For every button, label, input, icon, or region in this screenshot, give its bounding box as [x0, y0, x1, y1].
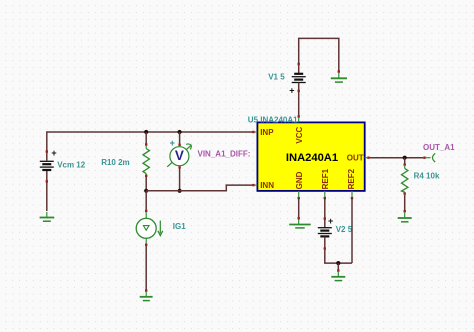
ground below GND pin [289, 217, 311, 228]
junction V2 ground [336, 261, 340, 265]
ground below Vcm [40, 212, 55, 221]
wire bottom rail to INN [146, 185, 252, 191]
wire OUT to terminal [370, 157, 424, 159]
svg-text:REF2: REF2 [347, 168, 356, 189]
pin GND [295, 171, 304, 199]
terminal OUT_A1 [423, 153, 435, 162]
svg-text:REF1: REF1 [321, 168, 330, 189]
wire Vcm bottom to ground [46, 170, 48, 211]
svg-text:V: V [175, 148, 184, 163]
svg-text:VCC: VCC [295, 126, 304, 143]
resistor R10 [143, 143, 149, 177]
junction at R10 top [144, 130, 148, 134]
pin REF1 [321, 168, 330, 199]
svg-text:Vcm 12: Vcm 12 [57, 160, 86, 169]
ground below V2 [331, 269, 345, 280]
ground below R4 [398, 210, 412, 222]
junction at R4 top [403, 156, 407, 160]
svg-text:+: + [170, 138, 175, 148]
wire REF2 down [351, 198, 353, 263]
wire voltmeter top stub [179, 132, 181, 144]
wire R4 bottom [404, 195, 406, 211]
wire V1 top to ground [299, 38, 339, 71]
wire GND pin to ground [298, 198, 300, 220]
svg-text:INA240A1: INA240A1 [286, 152, 338, 164]
wire voltmeter bottom stub [179, 168, 181, 191]
wire IG1 top [145, 191, 147, 211]
wire V1 to VCC pin [298, 92, 300, 116]
wire junction to ground [337, 263, 339, 270]
svg-text:IG1: IG1 [173, 222, 186, 231]
pin OUT [347, 154, 370, 163]
battery Vcm [40, 148, 57, 183]
svg-text:INN: INN [260, 181, 274, 190]
svg-text:R10 2m: R10 2m [101, 158, 129, 167]
voltmeter VIN_A1_DIFF [167, 138, 191, 169]
pin INN [252, 181, 274, 190]
pin REF2 [347, 168, 356, 199]
svg-text:OUT_A1: OUT_A1 [423, 143, 455, 152]
svg-text:INP: INP [260, 128, 274, 137]
wire top rail from Vcm to INP [47, 132, 253, 161]
svg-text:VIN_A1_DIFF:: VIN_A1_DIFF: [198, 150, 251, 159]
svg-text:+: + [328, 216, 333, 226]
junction at voltmeter bottom [178, 189, 182, 193]
resistor R4 [402, 163, 408, 194]
svg-text:OUT: OUT [347, 154, 364, 163]
svg-text:+: + [51, 148, 56, 158]
wire V2 bottom to junction [325, 250, 352, 263]
svg-text:V1 5: V1 5 [268, 72, 285, 81]
svg-text:+: + [289, 86, 294, 96]
ground right of V1 [331, 70, 347, 82]
wire R10 top stub [145, 132, 147, 144]
svg-text:GND: GND [295, 171, 304, 189]
ground below IG1 [140, 289, 153, 300]
wire REF1 to V2 [324, 198, 326, 220]
junction at R10 bottom [144, 189, 148, 193]
op-amp U5 INA240A1 [257, 122, 364, 190]
wire R10 bottom stub [145, 177, 147, 191]
svg-text:R4 10k: R4 10k [414, 172, 440, 181]
svg-text:V2 5: V2 5 [336, 225, 353, 234]
battery V2 [318, 216, 333, 250]
junction at voltmeter top [178, 130, 182, 134]
svg-text:U5 INA240A1: U5 INA240A1 [248, 115, 298, 124]
wire IG1 bottom [145, 246, 147, 290]
wire R4 top [404, 158, 406, 165]
battery V1 [289, 63, 306, 96]
current source IG1 [136, 210, 163, 246]
pin INP [252, 128, 274, 137]
pin VCC [295, 115, 304, 143]
